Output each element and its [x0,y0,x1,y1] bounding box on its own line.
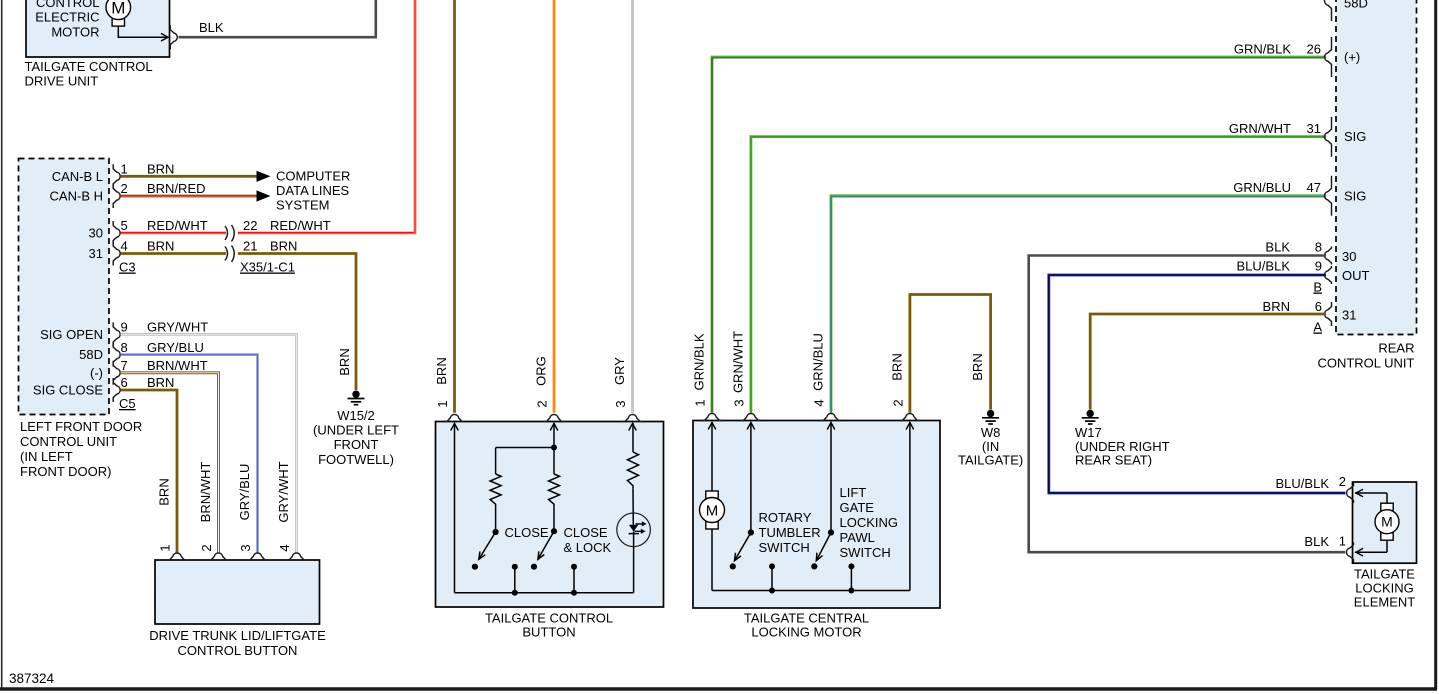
LED circle [617,513,651,547]
svg-text:(+): (+) [1344,50,1360,65]
svg-text:C5: C5 [119,396,136,411]
svg-text:387324: 387324 [9,671,55,686]
wire GRY from top to tailgate control button pin3 [631,0,634,413]
pin 5 bracket of left front door control unit [113,221,120,245]
svg-text:ORG: ORG [534,356,549,386]
wire BRN pin4 segment to connector [121,252,227,255]
svg-text:SIG OPEN: SIG OPEN [40,327,103,342]
svg-text:LOCKING MOTOR: LOCKING MOTOR [751,625,861,640]
svg-text:1: 1 [121,162,128,177]
pin 26 bracket (rear control unit) [1325,37,1332,77]
pin 47 bracket (rear control unit) [1325,176,1332,216]
wire BRN locking motor pin2 to ground W8 [910,295,991,413]
pin 4 bracket of drive trunk control button [287,553,307,560]
svg-text:6: 6 [121,375,128,390]
svg-text:BRN: BRN [157,478,172,505]
wire LED to bus [633,532,635,593]
resistor (CLOSE & LOCK branch) [549,474,560,507]
pin 1 bracket of left front door control unit [113,164,120,188]
pin 4 bracket of left front door control unit [113,242,120,266]
svg-text:A: A [1313,320,1322,335]
pin 2 bracket of tailgate control button [544,415,564,422]
arrow up at pin3 (central locking motor) [747,423,755,430]
diagram right border [1434,0,1437,689]
arrow into drive unit pin [161,33,168,41]
internal wire pin2 to motor (locking element) [1355,492,1387,494]
svg-text:SIG: SIG [1344,129,1366,144]
internal wire pin2 to bus (central locking motor) [909,422,911,591]
arrowhead to computer data lines (bottom) [257,190,271,201]
svg-text:BRN: BRN [147,239,174,254]
svg-text:FRONT DOOR): FRONT DOOR) [20,464,111,479]
wire resistor to CLOSE switch pivot [495,507,497,533]
wire BRN pin21 segment to ground W15/2 [238,254,356,391]
wire GRN/BLK locking motor pin1 to rear control unit pin26 [712,57,1326,413]
pin 3 bracket of tailgate control button [623,415,643,422]
left front door control unit box (dashed) [19,159,110,415]
branch wire junction to left resistor [496,447,554,449]
svg-text:BRN/RED: BRN/RED [147,181,206,196]
svg-text:BRN/WHT: BRN/WHT [198,462,213,523]
motor M of tailgate central locking motor [706,491,718,499]
svg-text:1: 1 [158,544,173,551]
pin 2 bracket of tailgate locking element [1347,483,1354,503]
contact link stub (rotary tumbler) [771,566,773,590]
svg-text:CONTROL UNIT: CONTROL UNIT [1317,355,1414,370]
pin 31 bracket (rear control unit) [1325,117,1332,157]
svg-text:31: 31 [1307,121,1321,136]
arrow up at pin1 (central locking motor) [708,423,716,430]
svg-text:BRN: BRN [147,162,174,177]
svg-text:(UNDER RIGHT: (UNDER RIGHT [1075,439,1170,454]
arrow up at pin2 (central locking motor) [906,423,914,430]
svg-text:2: 2 [199,544,214,551]
diagram bottom border [0,687,1437,690]
svg-text:W15/2: W15/2 [337,408,375,423]
svg-text:TUMBLER: TUMBLER [759,525,821,540]
resistor (CLOSE branch) [490,474,501,507]
svg-text:GRN/BLU: GRN/BLU [811,333,826,391]
svg-text:GRN/WHT: GRN/WHT [1229,121,1291,136]
svg-text:M: M [706,502,719,519]
junction dot on pin2 line [551,445,557,451]
svg-text:TAILGATE): TAILGATE) [958,453,1023,468]
wire RED/WHT pin22 segment to top [238,0,415,233]
svg-text:LIFT: LIFT [840,485,867,500]
pin 6 bracket of left front door control unit [113,378,120,402]
svg-text:GRY/WHT: GRY/WHT [147,320,208,335]
svg-text:BRN: BRN [337,348,352,375]
junction dot on bus (rotary link) [769,588,775,594]
svg-text:ROTARY: ROTARY [759,510,812,525]
inline connector X35/1-C1 pin22 [225,226,228,240]
svg-text:RED/WHT: RED/WHT [147,218,208,233]
internal wire motor to bus (central locking motor) [711,529,713,591]
pin bracket top cut (rear control unit) [1325,0,1332,21]
svg-text:BRN: BRN [270,239,297,254]
svg-text:GRY/WHT: GRY/WHT [276,461,291,522]
wire resistor to CLOSE&LOCK switch pivot [553,507,555,532]
drive trunk lid/liftgate control button box [155,560,320,624]
wire BLK rear control unit pin8 to tailgate locking element pin1 [1029,256,1346,553]
svg-text:FOOTWELL): FOOTWELL) [318,452,394,467]
svg-text:GRY/BLU: GRY/BLU [147,340,204,355]
wire BRN/RED CAN-B H to computer data lines [121,195,257,198]
pin 6 bracket (rear control unit) [1325,302,1332,326]
svg-text:(IN: (IN [982,439,999,454]
resistor (LED branch) [628,452,639,488]
svg-text:2: 2 [1339,474,1346,489]
svg-text:4: 4 [277,544,292,551]
svg-text:BRN: BRN [434,357,449,384]
svg-text:GATE: GATE [840,500,875,515]
svg-text:BUTTON: BUTTON [522,625,575,640]
svg-text:LEFT FRONT DOOR: LEFT FRONT DOOR [20,419,142,434]
contact dot top (pawl link) [848,563,854,569]
svg-text:31: 31 [89,246,103,261]
svg-text:DRIVE TRUNK LID/LIFTGATE: DRIVE TRUNK LID/LIFTGATE [149,628,326,643]
svg-text:22: 22 [243,218,257,233]
wire resistor to LED [632,488,634,525]
ground W8 [987,410,994,417]
svg-text:SWITCH: SWITCH [840,545,891,560]
wire motor to connector inside drive unit [118,25,168,37]
contact dot top (rotary link) [769,563,775,569]
svg-text:PAWL: PAWL [840,530,875,545]
wire BRN/WHT to drive trunk button pin2 [121,373,219,553]
contact link stub (CLOSE & LOCK) [573,567,575,593]
svg-text:MOTOR: MOTOR [51,24,99,39]
svg-text:6: 6 [1315,299,1322,314]
internal wire pin3 down (tailgate control button) [632,423,634,452]
wire BLK from drive unit to top [179,0,376,37]
svg-text:CLOSE: CLOSE [564,525,608,540]
svg-text:SYSTEM: SYSTEM [276,198,329,213]
svg-text:CONTROL UNIT: CONTROL UNIT [20,434,117,449]
svg-text:M: M [111,0,125,17]
drive unit output pin bracket [170,25,177,49]
svg-text:BRN/WHT: BRN/WHT [147,358,208,373]
svg-text:9: 9 [121,320,128,335]
arrow up at pin4 (central locking motor) [827,423,835,430]
svg-text:1: 1 [435,400,450,407]
pin 1 bracket of tailgate control button [445,415,465,422]
arrowhead to computer data lines (top) [257,171,271,182]
tailgate locking element box [1353,482,1417,563]
bottom bus (tailgate control button) [455,592,634,594]
pin 9 bracket (rear control unit) [1325,266,1332,284]
svg-text:2: 2 [535,400,550,407]
pin 7 bracket of left front door control unit [113,361,120,385]
wire RED/WHT pin5 segment to connector [121,232,227,235]
svg-text:3: 3 [613,400,628,407]
svg-text:1: 1 [693,399,708,406]
svg-text:BLU/BLK: BLU/BLK [1276,476,1330,491]
contact link stub (CLOSE) [514,567,516,593]
ground W17 [1087,410,1094,417]
arrow left at pin2 (locking element) [1356,489,1363,497]
svg-text:GRN/BLU: GRN/BLU [1233,180,1291,195]
svg-text:BRN: BRN [890,353,905,380]
svg-text:(IN LEFT: (IN LEFT [20,449,73,464]
svg-text:BLK: BLK [199,20,224,35]
svg-text:DRIVE UNIT: DRIVE UNIT [25,74,99,89]
pin 9 bracket of left front door control unit [113,322,120,346]
svg-text:21: 21 [243,239,257,254]
svg-text:REAR SEAT): REAR SEAT) [1075,453,1152,468]
svg-text:SIG CLOSE: SIG CLOSE [33,383,103,398]
rotary tumbler switch [748,529,754,535]
svg-text:31: 31 [1342,308,1356,323]
svg-text:OUT: OUT [1342,268,1370,283]
svg-text:CLOSE: CLOSE [505,525,549,540]
LED cathode bar [629,533,639,535]
junction dot on bus (pawl link) [848,588,854,594]
pin 1 bracket of drive trunk control button [167,553,187,560]
internal wire pin3 to rotary tumbler switch [750,422,752,533]
svg-text:RED/WHT: RED/WHT [270,218,331,233]
internal wire pin1 to bottom bus (tailgate control button) [454,423,456,593]
svg-text:TAILGATE CONTROL: TAILGATE CONTROL [25,59,153,74]
wire BLU/BLK rear control unit pin9 to tailgate locking element pin2 [1049,275,1346,493]
svg-text:58D: 58D [1344,0,1368,11]
tailgate control drive unit box [26,0,170,57]
svg-text:GRN/BLK: GRN/BLK [1234,41,1291,56]
tailgate central locking motor box [693,421,940,609]
svg-text:BRN: BRN [147,375,174,390]
junction dot on bus (CLOSE link) [512,590,518,596]
svg-text:REAR: REAR [1378,341,1414,356]
svg-text:7: 7 [121,358,128,373]
svg-text:5: 5 [121,218,128,233]
wire GRN/BLU locking motor pin4 to rear control unit pin47 [831,196,1326,413]
wire GRY/WHT to drive trunk button pin4 [121,334,297,552]
wire BRN to drive trunk button pin1 [121,390,178,553]
pin 8 bracket of left front door control unit [113,343,120,367]
svg-text:BLK: BLK [1304,534,1329,549]
svg-text:ELECTRIC: ELECTRIC [35,10,99,25]
svg-text:47: 47 [1307,180,1321,195]
svg-text:SIG: SIG [1344,188,1366,203]
svg-text:8: 8 [121,340,128,355]
svg-text:LOCKING: LOCKING [1355,580,1414,595]
inline connector X35/1-C1 pin21 [225,247,228,261]
svg-text:GRY: GRY [612,357,627,385]
svg-text:ELEMENT: ELEMENT [1354,594,1415,609]
svg-text:9: 9 [1315,259,1322,274]
svg-text:4: 4 [812,399,827,406]
svg-text:GRN/WHT: GRN/WHT [730,331,745,393]
svg-text:(-): (-) [90,365,103,380]
arrow left at pin1 (locking element) [1356,548,1363,556]
LED light arrows [636,523,643,525]
svg-text:W8: W8 [981,425,1001,440]
internal wire pin2 down to junction (tailgate control button) [553,423,555,474]
svg-text:& LOCK: & LOCK [564,540,612,555]
rear control unit box (dashed) [1336,0,1417,335]
pin 8 bracket (rear control unit) [1325,247,1332,265]
svg-text:BLU/BLK: BLU/BLK [1237,259,1291,274]
svg-text:30: 30 [89,226,103,241]
pin 4 bracket of tailgate central locking motor [821,414,841,421]
svg-text:SWITCH: SWITCH [759,540,810,555]
pin 3 bracket of tailgate central locking motor [741,414,761,421]
svg-text:2: 2 [121,181,128,196]
svg-text:3: 3 [731,399,746,406]
svg-text:1: 1 [1339,534,1346,549]
wire BRN rear control unit pin6 to ground W17 [1090,314,1326,410]
svg-text:26: 26 [1307,41,1321,56]
svg-text:FRONT: FRONT [334,437,379,452]
svg-text:M: M [1381,514,1393,530]
svg-text:COMPUTER: COMPUTER [276,168,350,183]
svg-text:DATA LINES: DATA LINES [276,183,350,198]
pin 2 bracket of tailgate central locking motor [900,414,920,421]
svg-text:C3: C3 [119,260,136,275]
bottom bus (central locking motor) [712,590,910,592]
svg-text:3: 3 [238,544,253,551]
arrow up at pin1 (tailgate control button) [451,424,459,431]
svg-text:4: 4 [121,239,128,254]
svg-text:LOCKING: LOCKING [840,515,899,530]
svg-text:BRN: BRN [1263,299,1290,314]
svg-text:TAILGATE CONTROL: TAILGATE CONTROL [485,611,613,626]
internal wire pin4 to liftgate pawl switch [830,422,832,533]
pin 3 bracket of drive trunk control button [248,553,268,560]
wire BRN CAN-B L to computer data lines [121,175,257,178]
pin 1 bracket of tailgate central locking motor [702,414,722,421]
svg-text:BLK: BLK [1265,239,1290,254]
tailgate control button box [436,422,664,608]
wire ORG from top to tailgate control button pin2 [553,0,556,413]
switch CLOSE [493,529,499,535]
svg-text:2: 2 [890,399,905,406]
svg-text:TAILGATE CENTRAL: TAILGATE CENTRAL [744,611,869,626]
svg-text:B: B [1313,280,1322,295]
wire GRN/WHT locking motor pin3 to rear control unit pin31 [751,137,1326,413]
wire BRN from top to tailgate control button pin1 [453,0,456,413]
arrow up at pin2 (tailgate control button) [550,424,558,431]
svg-text:30: 30 [1342,249,1356,264]
contact dot top (CLOSE & LOCK link) [571,564,577,570]
arrow up at pin3 (tailgate control button) [629,424,637,431]
pin 2 bracket of drive trunk control button [209,553,229,560]
internal wire pin1 to motor (central locking motor) [711,422,713,491]
svg-text:TAILGATE: TAILGATE [1354,567,1415,582]
svg-text:CONTROL: CONTROL [36,0,100,10]
pin 1 bracket of tailgate locking element [1347,542,1354,562]
svg-text:58D: 58D [79,347,103,362]
svg-text:8: 8 [1315,239,1322,254]
switch CLOSE & LOCK [551,528,557,534]
svg-text:GRN/BLK: GRN/BLK [692,333,707,390]
svg-text:(UNDER LEFT: (UNDER LEFT [313,423,399,438]
lift gate locking pawl switch [828,529,834,535]
diagram left border [1,0,3,689]
contact link stub (pawl switch) [850,566,852,590]
junction dot on bus (CLOSE & LOCK link) [571,590,577,596]
ground W15/2 [352,391,359,398]
svg-text:CAN-B H: CAN-B H [50,189,103,204]
LED triangle [629,525,638,532]
svg-text:CONTROL BUTTON: CONTROL BUTTON [178,643,298,658]
svg-text:BRN: BRN [970,353,985,380]
svg-text:X35/1-C1: X35/1-C1 [240,260,295,275]
contact dot top (CLOSE link) [512,564,518,570]
internal wire pin1 to motor (locking element) [1355,551,1387,553]
wire GRY/BLU to drive trunk button pin3 [121,355,258,553]
pin 2 bracket of left front door control unit [113,184,120,208]
svg-text:GRY/BLU: GRY/BLU [237,464,252,521]
motor M of tailgate locking element [1381,503,1393,511]
svg-text:CAN-B L: CAN-B L [52,169,103,184]
svg-text:W17: W17 [1075,425,1102,440]
